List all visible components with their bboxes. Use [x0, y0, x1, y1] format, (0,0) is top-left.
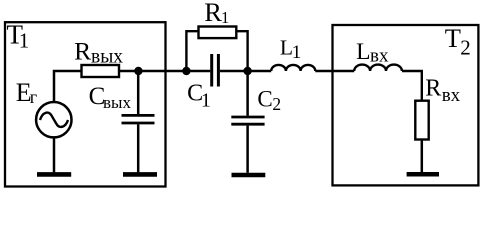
wire source corner to Rvyh: [54, 71, 82, 102]
label T1: [7, 20, 30, 53]
inductor Lvh: [354, 65, 402, 71]
svg-text:R: R: [425, 76, 441, 102]
svg-text:вых: вых: [91, 47, 123, 68]
svg-text:1: 1: [292, 42, 302, 63]
wire source to ground: [53, 137, 56, 172]
capacitor C2: [231, 71, 264, 173]
capacitor C1 plates: [212, 54, 219, 87]
wire L1 to Lvh: [315, 70, 354, 73]
sine wave inside source: [40, 113, 68, 127]
label Eg: [16, 78, 37, 107]
svg-text:вых: вых: [103, 93, 131, 112]
label Rvyh: [74, 37, 123, 68]
ground for Eg: [37, 172, 71, 177]
label Lvh: [356, 39, 389, 66]
block T1: [5, 22, 166, 186]
svg-text:1: 1: [221, 8, 229, 27]
svg-text:1: 1: [201, 90, 211, 112]
label Cvyh: [89, 83, 132, 112]
label C1: [187, 81, 211, 112]
svg-text:вх: вх: [370, 46, 389, 67]
label Rvh: [425, 76, 460, 107]
svg-text:R: R: [204, 0, 222, 27]
svg-text:вх: вх: [442, 85, 461, 106]
svg-text:C: C: [257, 86, 272, 111]
svg-text:T: T: [445, 23, 461, 53]
inductor L1: [271, 65, 315, 71]
svg-text:L: L: [356, 39, 370, 65]
ground for Rvh: [407, 172, 439, 177]
ground for Cvyh: [123, 172, 157, 177]
label L1: [280, 35, 301, 63]
label C2: [257, 86, 281, 114]
wire Lvh corner down to Rvh: [402, 71, 422, 101]
wire Rvyh to C1 left plate: [119, 70, 210, 73]
svg-text:г: г: [30, 87, 37, 107]
ground for C2: [232, 173, 266, 178]
label T2: [445, 23, 471, 60]
resistor R1 branch wires: [186, 31, 198, 71]
resistor Rvyh: [82, 65, 120, 77]
svg-text:R: R: [74, 37, 91, 66]
svg-text:2: 2: [460, 36, 471, 60]
resistor Rvh: [415, 101, 428, 140]
block T2: [333, 25, 479, 185]
wire Rvh to ground: [421, 140, 424, 173]
wire C1 right plate to L1: [220, 70, 271, 73]
junction node at Cvyh: [134, 67, 142, 75]
label R1: [204, 0, 229, 27]
source Eg circle: [36, 102, 71, 137]
capacitor Cvyh: [122, 71, 155, 172]
svg-text:2: 2: [272, 94, 281, 114]
resistor R1: [199, 27, 237, 39]
svg-text:1: 1: [19, 29, 30, 53]
junction node 2: [243, 67, 251, 75]
junction node 1: [182, 67, 190, 75]
